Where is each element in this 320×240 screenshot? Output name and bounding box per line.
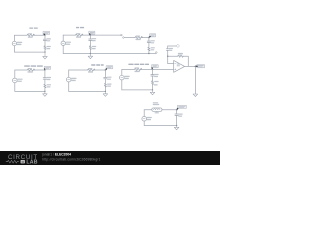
svg-text:http://circuitlab.com/c6C26698: http://circuitlab.com/c6C26698bkgr1 [42,157,100,161]
output wire [185,65,196,67]
ground A [43,52,48,59]
wire top E [15,69,45,71]
output flag D [197,65,205,68]
junction feedback [167,56,168,57]
voltage source V1 [12,41,16,45]
capacitor C1 [43,39,46,40]
ground H [174,126,179,130]
branch G [152,69,154,90]
junction H top [176,109,177,110]
title [24,65,43,66]
capacitor C3 [147,41,150,42]
branch C [148,38,150,54]
node flag H [178,105,187,108]
branch F [104,70,106,91]
title [128,64,149,65]
rail end stub [156,52,158,54]
branch E [44,70,46,91]
junction C top [148,37,149,38]
branch B [89,35,91,53]
wire bottom G [122,89,153,91]
capacitor C7 [151,75,154,76]
user line [41,153,71,157]
branch H with capacitor C8 [176,110,178,126]
voltage source V6 [142,116,147,121]
inductor L1 [152,108,162,111]
node diamond [176,44,179,47]
wire top F [69,69,106,71]
wire top A [14,34,45,36]
wire right branch A [44,35,46,52]
node flag F [106,66,113,69]
node flag A [43,31,49,34]
wire inverting input [168,63,174,65]
junction F top [105,69,106,70]
junction G bottom [152,89,153,90]
ground E [43,91,48,96]
wire output to ground [194,66,196,94]
ground F [103,91,108,96]
logo bright mark [21,160,25,163]
title Lowpass [29,28,37,29]
wire top G to op-amp [122,68,174,70]
voltage source V4 [66,77,71,82]
open endpoint C [123,37,125,39]
LAB text [26,160,37,166]
resistor R9 vertical [44,84,46,88]
ground D [193,94,198,97]
wire top C [124,37,149,39]
wire left G [121,69,123,90]
resistor R13 vertical [151,81,153,85]
capacitor C2 [89,39,92,40]
resistor R4 vertical [89,46,91,50]
node flag G [152,65,159,68]
svg-text:jonah1 / ELEC2004: jonah1 / ELEC2004 [41,153,71,157]
wire left A [13,35,15,52]
wire left B [62,35,64,53]
wire top B [63,34,121,36]
wire bottom F [69,90,106,92]
feedback vertical with capacitor C4 [167,46,169,64]
voltage source V3 [13,78,18,83]
resistor R3 [76,34,84,36]
junction G top [152,69,153,70]
svg-text:LAB: LAB [26,160,37,166]
CircuitLab logo text [8,154,38,161]
wire to node diamond [168,45,177,47]
ground G [150,90,155,95]
wire left F [68,70,70,91]
inductor labels [153,102,158,103]
resistor R8 [27,69,35,71]
node flag B [89,31,95,34]
wire top H [144,109,176,111]
junction output [195,66,196,67]
resistor R5 [135,36,143,38]
wire left E [14,70,16,91]
capacitor C6 [104,77,107,78]
junction rail B [90,53,91,54]
junction E bottom [44,91,45,92]
shared bottom rail [63,53,156,55]
wire bottom E [15,90,45,92]
voltage source V5 [120,75,125,80]
title [91,64,104,65]
resistor R10 [88,69,96,71]
junction F bottom [105,91,106,92]
resistor R6 vertical [148,47,150,51]
title [76,27,84,28]
junction A [44,52,45,53]
junction rail C [148,53,149,54]
open endpoint [121,34,123,36]
junction B top [90,35,91,36]
junction E top [44,69,45,70]
ground B [88,54,93,59]
capacitor C5 [43,78,46,79]
node flag C [150,34,156,37]
junction H bottom [176,125,177,126]
logo zigzag [6,160,19,163]
url line [42,157,100,161]
resistor R2 vertical [44,46,46,50]
wire bottom H [144,125,176,127]
wire bottom A [14,51,45,53]
resistor R1 [27,34,35,36]
resistor R12 [134,68,142,70]
feedback wire with resistor R7 [168,56,189,66]
voltage source V2 [61,41,65,45]
op-amp U1 [174,60,185,72]
node flag E [44,66,50,69]
wire left H [143,110,145,126]
resistor R11 vertical [104,83,106,87]
